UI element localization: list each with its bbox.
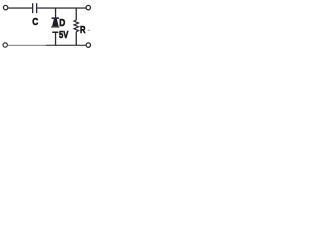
svg-text:C: C [32, 17, 38, 28]
svg-text:5V: 5V [59, 30, 69, 41]
svg-text:D: D [59, 18, 65, 29]
svg-text:R: R [80, 25, 86, 36]
